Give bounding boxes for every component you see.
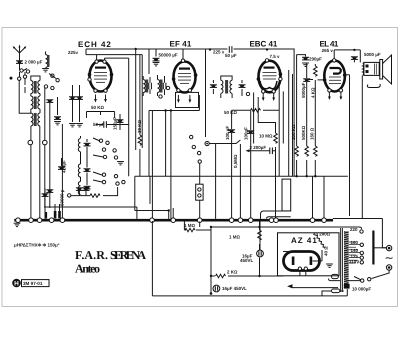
svg-text:ECH 42: ECH 42 (78, 40, 112, 49)
svg-text:50 KΩ: 50 KΩ (91, 105, 105, 110)
svg-text:4 KΩ: 4 KΩ (310, 87, 315, 98)
svg-text:1 MΩ: 1 MΩ (184, 223, 196, 228)
svg-text:30 KΩ: 30 KΩ (137, 119, 142, 133)
svg-text:50 µF: 50 µF (225, 53, 237, 58)
svg-text:5000 µF: 5000 µF (364, 52, 381, 57)
svg-text:200 KΩ: 200 KΩ (291, 124, 296, 140)
svg-text:43 280Ω: 43 280Ω (313, 232, 331, 237)
svg-text:EF 41: EF 41 (170, 40, 193, 49)
svg-text:450VL: 450VL (240, 258, 254, 263)
svg-text:0,5MΩ: 0,5MΩ (233, 154, 238, 168)
svg-text:2 200µF: 2 200µF (250, 145, 267, 150)
svg-text:125: 125 (351, 254, 359, 259)
svg-text:225 v: 225 v (213, 49, 225, 54)
svg-text:110V: 110V (349, 260, 359, 265)
svg-text:AZ 41: AZ 41 (291, 236, 318, 245)
svg-text:2 KΩ: 2 KΩ (227, 270, 238, 275)
svg-text:290µF: 290µF (309, 57, 322, 62)
svg-text:140: 140 (351, 248, 359, 253)
svg-text:7.5 v: 7.5 v (270, 54, 281, 59)
svg-text:5000µF: 5000µF (301, 82, 306, 98)
svg-text:H: H (14, 281, 19, 288)
svg-text:220: 220 (350, 227, 358, 232)
svg-text:225v: 225v (68, 50, 79, 55)
svg-text:160: 160 (351, 240, 359, 245)
svg-text:Anteo: Anteo (75, 262, 100, 276)
svg-text:∼: ∼ (385, 253, 394, 265)
svg-text:10 MΩ: 10 MΩ (259, 134, 273, 139)
svg-text:10 000µF: 10 000µF (352, 287, 371, 292)
svg-text:50000 µ: 50000 µ (60, 189, 65, 206)
svg-text:160 Ω: 160 Ω (310, 127, 315, 140)
svg-text:500KΩ: 500KΩ (301, 125, 306, 140)
svg-text:265 v: 265 v (322, 48, 334, 53)
svg-text:50000 µF: 50000 µF (159, 53, 178, 58)
svg-text:150µF: 150µF (113, 117, 118, 130)
svg-text:SERENA: SERENA (110, 248, 146, 262)
svg-text:2 000 µF: 2 000 µF (25, 60, 43, 65)
svg-text:F.A.R.: F.A.R. (75, 248, 108, 262)
svg-text:16µF 450VL: 16µF 450VL (222, 286, 247, 291)
svg-text:EBC 41: EBC 41 (250, 40, 279, 49)
svg-text:1 MΩ: 1 MΩ (229, 235, 241, 240)
svg-text:3M 97-01: 3M 97-01 (23, 281, 43, 286)
svg-text:μΗΡΔΣΤΗΧΦ Φ 150μº: μΗΡΔΣΤΗΧΦ Φ 150μº (14, 242, 60, 247)
